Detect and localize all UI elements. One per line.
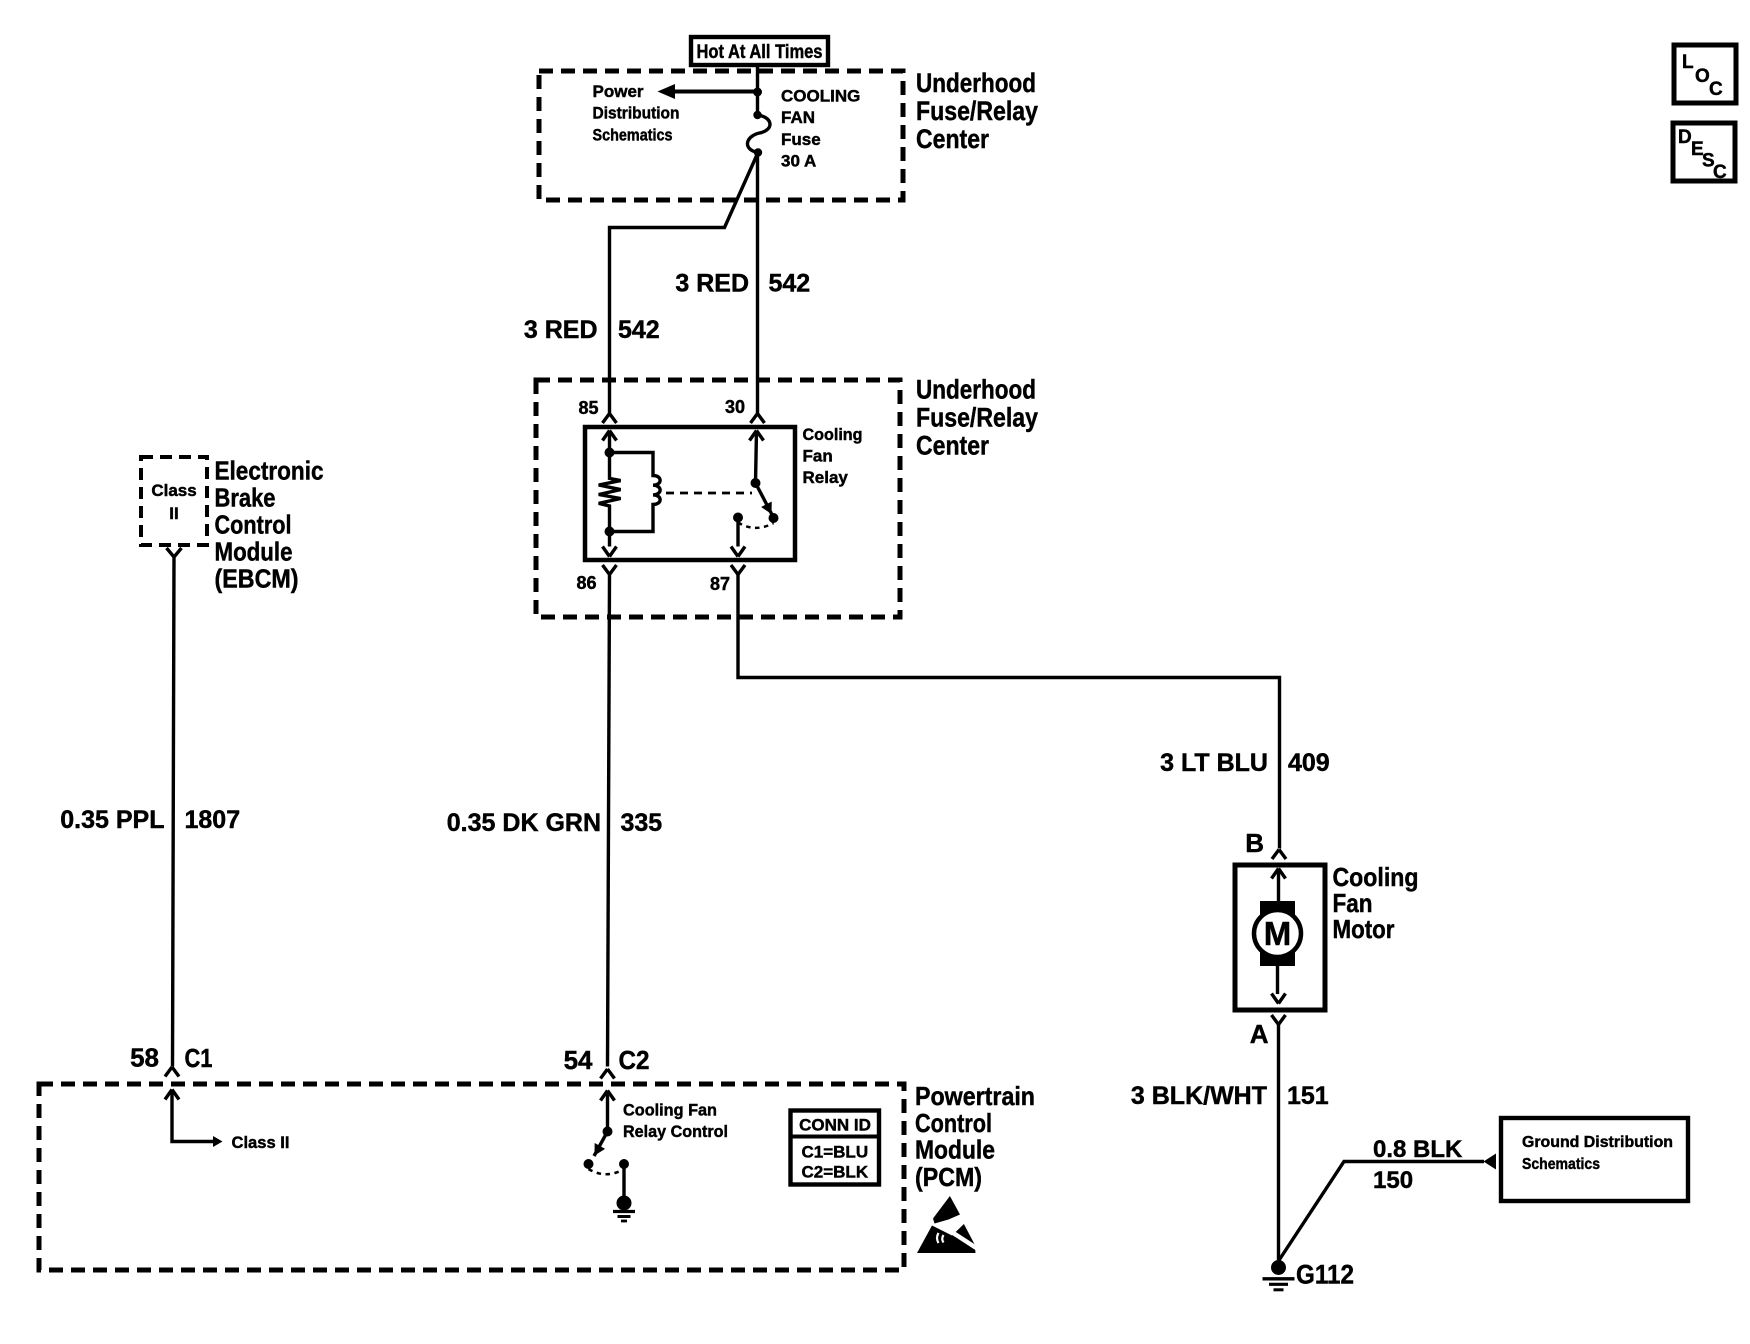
- svg-text:542: 542: [618, 316, 660, 344]
- svg-text:Control: Control: [915, 1108, 992, 1138]
- PCM block: Powertrain Control Module (dashed box): [39, 1084, 904, 1270]
- connector symbol at relay pin 30: [751, 414, 765, 424]
- svg-text:C1: C1: [185, 1043, 213, 1073]
- svg-text:C1=BLU: C1=BLU: [802, 1143, 869, 1162]
- label 3 LT BLU 409: [1160, 749, 1330, 777]
- svg-text:G112: G112: [1296, 1260, 1354, 1290]
- svg-text:Module: Module: [215, 537, 293, 567]
- label 3 RED 542 (right wire, circuit 542): [675, 270, 810, 298]
- svg-text:Center: Center: [916, 124, 989, 154]
- svg-text:Control: Control: [215, 510, 292, 540]
- svg-text:Class: Class: [151, 481, 196, 500]
- label Electronic Brake Control Module (EBCM): [215, 456, 324, 594]
- svg-text:(PCM): (PCM): [915, 1162, 982, 1192]
- PCM driver switch SW2 Cooling Fan Relay Control: [584, 1132, 630, 1175]
- wire 151 BLK/WHT from motor pin A to ground G112: [1277, 1025, 1280, 1261]
- svg-text:542: 542: [769, 270, 811, 298]
- wire relay pin 86 internal arrow down: [603, 547, 617, 557]
- svg-text:A: A: [1250, 1019, 1269, 1049]
- wire PCM pin 54 internal with arrow up: [601, 1091, 615, 1137]
- svg-text:Underhood: Underhood: [916, 375, 1036, 405]
- svg-text:Schematics: Schematics: [593, 125, 673, 144]
- svg-text:Brake: Brake: [215, 483, 276, 513]
- connector symbol below relay pin 86: [603, 565, 617, 575]
- svg-text:II: II: [169, 504, 178, 523]
- svg-text:Ground Distribution: Ground Distribution: [1522, 1134, 1673, 1151]
- svg-text:L: L: [1682, 52, 1694, 73]
- svg-text:Cooling: Cooling: [803, 425, 863, 444]
- wire arrow to Power Distribution Schematics: [658, 84, 758, 99]
- wire dashed actuation link coil to switch: [666, 492, 752, 495]
- relay K1 Cooling Fan Relay (solid box): [585, 427, 795, 560]
- svg-text:Motor: Motor: [1333, 914, 1395, 944]
- svg-text:B: B: [1245, 828, 1264, 858]
- label 0.35 PPL 1807: [60, 806, 240, 834]
- label 0.35 DK GRN 335: [447, 809, 663, 837]
- svg-text:Distribution: Distribution: [593, 104, 680, 123]
- svg-text:3 RED: 3 RED: [675, 270, 749, 298]
- node DESC reference box: [1673, 123, 1735, 183]
- wire fuse output left branch (diagonal + jog) down to relay pin 85: [610, 153, 759, 414]
- wire 1807 PPL from EBCM to PCM pin 58: [173, 557, 175, 1067]
- wire fuse output right branch down to relay pin 30: [756, 153, 759, 414]
- label Powertrain Control Module (PCM): [915, 1081, 1035, 1192]
- svg-text:FAN: FAN: [781, 108, 815, 127]
- wire 409 LT BLU from relay pin 87 to motor pin B: [738, 575, 1280, 849]
- svg-text:Center: Center: [916, 431, 989, 461]
- svg-text:54: 54: [564, 1045, 593, 1075]
- svg-text:151: 151: [1287, 1082, 1329, 1110]
- node Hot At All Times label box: [691, 37, 828, 65]
- connector symbol at PCM pin 54 C2: [601, 1069, 615, 1079]
- fuse F1 COOLING FAN Fuse 30A (S-curve symbol): [747, 111, 770, 157]
- svg-text:Fuse: Fuse: [781, 130, 821, 149]
- label Cooling Fan Relay: [803, 425, 863, 487]
- svg-text:58: 58: [130, 1043, 159, 1073]
- CONN ID table: [791, 1111, 880, 1185]
- svg-text:O: O: [1695, 66, 1710, 87]
- svg-text:COOLING: COOLING: [781, 87, 860, 106]
- svg-text:Relay Control: Relay Control: [623, 1122, 728, 1141]
- connector symbol at relay pin 85: [603, 414, 617, 424]
- connector symbol at PCM pin 58 C1: [165, 1067, 179, 1077]
- connector symbol below EBCM: [167, 548, 182, 557]
- motor M1 box: [1235, 865, 1325, 1010]
- ESD sensitive device symbol: [917, 1196, 981, 1253]
- svg-text:Electronic: Electronic: [215, 456, 324, 486]
- pin 85 label: [578, 398, 598, 418]
- svg-text:0.8 BLK: 0.8 BLK: [1373, 1136, 1463, 1163]
- svg-text:M: M: [1264, 915, 1292, 952]
- svg-text:0.35 DK GRN: 0.35 DK GRN: [447, 809, 601, 837]
- svg-text:85: 85: [578, 398, 598, 418]
- label 3 BLK/WHT 151: [1131, 1082, 1329, 1110]
- label Underhood Fuse/Relay Center (second): [916, 375, 1038, 461]
- svg-text:Relay: Relay: [803, 468, 849, 487]
- wire 150 BLK to Ground Distribution Schematics: [1279, 1154, 1497, 1262]
- svg-text:87: 87: [710, 574, 730, 594]
- ground G112 symbol: [1263, 1260, 1355, 1290]
- svg-text:Fan: Fan: [803, 447, 833, 466]
- relay switch SW1 (movable arm with arrow): [756, 483, 779, 523]
- svg-text:Module: Module: [915, 1135, 995, 1165]
- svg-text:30: 30: [725, 397, 745, 417]
- svg-text:Underhood: Underhood: [916, 68, 1036, 98]
- wire relay pin 87 internal arrow down: [731, 518, 745, 557]
- label 3 RED 542 (left wire, circuit 542): [524, 316, 660, 344]
- svg-text:C: C: [1709, 79, 1723, 100]
- svg-text:3 LT BLU: 3 LT BLU: [1160, 749, 1268, 777]
- relay coil resistor R1 (zigzag): [599, 453, 621, 547]
- svg-text:D: D: [1678, 127, 1692, 148]
- svg-text:3 BLK/WHT: 3 BLK/WHT: [1131, 1082, 1267, 1110]
- pin 30 label: [725, 397, 745, 417]
- svg-text:Schematics: Schematics: [1522, 1156, 1600, 1173]
- svg-text:C2=BLK: C2=BLK: [802, 1163, 869, 1182]
- motor internal: arrow in, brushes, M circle, arrow out: [1254, 869, 1301, 1004]
- pin 54 / C2 labels: [564, 1045, 650, 1075]
- node Ground Distribution Schematics reference box: [1501, 1118, 1688, 1201]
- svg-text:Cooling Fan: Cooling Fan: [623, 1101, 717, 1120]
- relay switch fixed contact and travel arc: [733, 513, 774, 528]
- svg-text:409: 409: [1288, 749, 1330, 777]
- motor block Cooling Fan Motor: pin B connector: [1245, 828, 1286, 859]
- svg-text:(EBCM): (EBCM): [215, 564, 299, 594]
- relay block: Underhood Fuse/Relay Center (second dashed box): [536, 380, 900, 617]
- svg-text:86: 86: [576, 573, 596, 593]
- svg-text:0.35 PPL: 0.35 PPL: [60, 806, 164, 834]
- pin 87 label: [710, 574, 730, 594]
- svg-text:CONN ID: CONN ID: [799, 1116, 871, 1135]
- svg-text:Hot At All Times: Hot At All Times: [697, 42, 823, 63]
- connector symbol below relay pin 87: [731, 565, 745, 575]
- svg-text:Fuse/Relay: Fuse/Relay: [916, 96, 1038, 126]
- svg-text:30 A: 30 A: [781, 152, 816, 171]
- svg-text:C: C: [1713, 162, 1727, 183]
- fuse block U1: Underhood Fuse/Relay Center (top dashed box): [539, 71, 903, 200]
- motor pin A connector: [1250, 1015, 1286, 1049]
- svg-text:Powertrain: Powertrain: [915, 1081, 1035, 1111]
- wire relay pin 30 internal with arrow up: [750, 431, 764, 489]
- label Power Distribution Schematics: [593, 82, 680, 144]
- svg-text:Fuse/Relay: Fuse/Relay: [916, 403, 1038, 433]
- svg-text:150: 150: [1373, 1167, 1413, 1194]
- relay coil L1 (parallel branch with bumps): [610, 453, 661, 532]
- label 0.8 BLK / 150: [1373, 1136, 1463, 1194]
- svg-text:Power: Power: [593, 82, 644, 101]
- svg-text:335: 335: [621, 809, 663, 837]
- pin 86 label: [576, 573, 596, 593]
- label Cooling Fan Relay Control: [623, 1101, 728, 1142]
- EBCM block: Electronic Brake Control Module (dashed box): [141, 457, 207, 545]
- label Cooling Fan Motor: [1333, 862, 1419, 944]
- svg-text:1807: 1807: [185, 806, 241, 834]
- wire feed from Hot At All Times down to fuse: [753, 66, 762, 115]
- svg-text:3 RED: 3 RED: [524, 316, 598, 344]
- internal ground of PCM driver: [613, 1164, 635, 1221]
- wire 335 DK GRN from relay pin 86 to PCM pin 54: [608, 575, 610, 1067]
- svg-text:C2: C2: [619, 1045, 650, 1075]
- node LOC reference box: [1674, 45, 1736, 103]
- pin 58 / C1 labels: [130, 1043, 212, 1074]
- wire relay pin 85 internal with arrow up: [603, 431, 617, 458]
- label COOLING FAN Fuse 30 A: [781, 87, 860, 171]
- label Underhood Fuse/Relay Center (top): [916, 68, 1038, 154]
- svg-text:Class II: Class II: [232, 1133, 290, 1152]
- wire PCM pin 58 internal Class II reference arrow: [165, 1090, 290, 1153]
